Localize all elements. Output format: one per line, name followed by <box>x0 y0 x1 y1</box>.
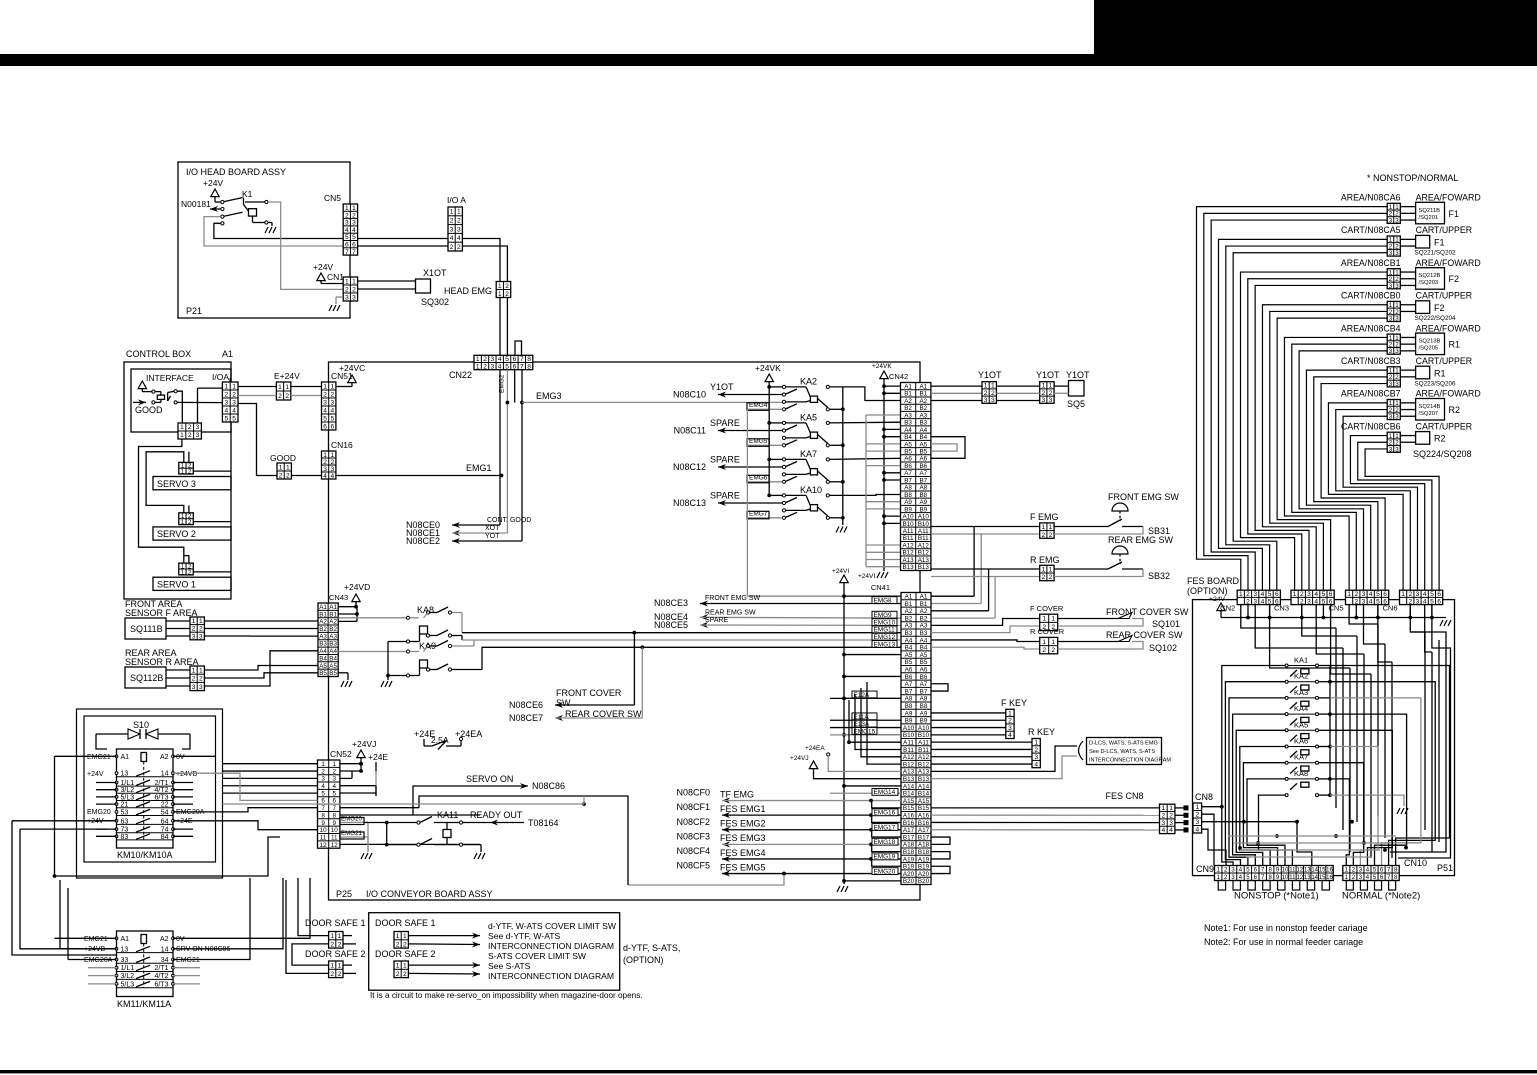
svg-text:A5: A5 <box>905 652 913 659</box>
svg-text:B7: B7 <box>905 688 913 695</box>
svg-text:B7: B7 <box>919 477 927 484</box>
fes ground bus <box>1221 617 1446 619</box>
svg-text:A1: A1 <box>920 593 928 600</box>
svg-text:SQ212B: SQ212B <box>1419 273 1441 279</box>
svg-text:2: 2 <box>278 393 282 400</box>
svg-text:A15: A15 <box>918 798 930 805</box>
svg-text:1: 1 <box>352 205 356 212</box>
svg-text:KA7: KA7 <box>800 449 817 459</box>
svg-text:A2: A2 <box>920 608 928 615</box>
svg-text:2: 2 <box>991 390 995 397</box>
svg-text:INTERCONNECTION DIAGRAM: INTERCONNECTION DIAGRAM <box>1089 758 1171 764</box>
svg-text:4: 4 <box>232 407 236 414</box>
svg-text:KA5: KA5 <box>800 413 817 423</box>
connector CN3 <box>1291 590 1334 604</box>
svg-text:4: 4 <box>498 356 502 363</box>
svg-text:11: 11 <box>331 834 338 841</box>
connector servo1 <box>179 563 194 575</box>
svg-text:+24E: +24E <box>176 818 193 825</box>
svg-text:B15: B15 <box>903 805 915 812</box>
svg-text:AREA/FOWARD: AREA/FOWARD <box>1416 389 1481 399</box>
svg-text:Y1OT: Y1OT <box>710 382 734 392</box>
svg-text:2: 2 <box>345 286 349 293</box>
svg-text:3: 3 <box>1008 725 1012 732</box>
svg-text:NORMAL (*Note2): NORMAL (*Note2) <box>1342 891 1420 902</box>
svg-text:SPARE: SPARE <box>710 491 740 501</box>
svg-text:A12: A12 <box>918 754 930 761</box>
CN9 teeth <box>1218 881 1225 891</box>
svg-text:+24VJ: +24VJ <box>352 739 376 749</box>
svg-text:F COVER: F COVER <box>1030 604 1064 613</box>
svg-text:B2: B2 <box>920 615 928 622</box>
svg-text:SW: SW <box>556 698 571 708</box>
cover-sw bus wires <box>461 613 463 633</box>
svg-text:14: 14 <box>1311 868 1318 874</box>
svg-text:A6: A6 <box>920 666 928 673</box>
svg-text:2: 2 <box>1354 591 1358 598</box>
svg-text:1: 1 <box>457 209 461 216</box>
svg-text:2: 2 <box>403 941 407 948</box>
svg-text:1: 1 <box>338 933 342 940</box>
svg-text:E+24V: E+24V <box>274 371 300 381</box>
svg-text:4: 4 <box>1369 598 1373 605</box>
note leader <box>1079 741 1084 760</box>
svg-text:EMG8: EMG8 <box>874 597 893 604</box>
svg-text:SQ211B: SQ211B <box>1419 208 1441 214</box>
svg-text:A20: A20 <box>903 871 915 878</box>
svg-text:3: 3 <box>1253 598 1257 605</box>
svg-text:3: 3 <box>1389 315 1393 322</box>
svg-text:2: 2 <box>1246 598 1250 605</box>
svg-text:B6: B6 <box>905 674 913 681</box>
svg-text:3: 3 <box>224 399 228 406</box>
N08CE7 rear cover sw <box>641 647 643 718</box>
svg-text:B5: B5 <box>904 448 912 455</box>
KM10 row stub wires <box>96 782 117 784</box>
svg-text:+24VI: +24VI <box>832 568 849 575</box>
svg-text:B19: B19 <box>903 864 915 871</box>
relay bottom row <box>1285 794 1288 797</box>
svg-text:+24VK: +24VK <box>755 363 781 373</box>
CN8 wires <box>1202 806 1222 808</box>
svg-text:A12: A12 <box>902 542 914 549</box>
svg-text:KA5: KA5 <box>1294 720 1308 729</box>
svg-text:I/O A: I/O A <box>447 195 466 205</box>
switch box SQ213B/SQ205 R1 <box>1416 333 1445 355</box>
svg-text:A13: A13 <box>918 769 930 776</box>
svg-text:2: 2 <box>188 432 192 439</box>
svg-text:SQ302: SQ302 <box>421 297 449 307</box>
svg-text:9: 9 <box>333 820 337 827</box>
svg-text:SENSOR F AREA: SENSOR F AREA <box>125 608 198 618</box>
svg-text:4: 4 <box>321 783 325 790</box>
svg-text:d-YTF, S-ATS,: d-YTF, S-ATS, <box>623 943 680 953</box>
svg-text:1: 1 <box>181 468 185 475</box>
F EMG wires <box>931 526 1040 528</box>
left nest wiring to CN9 <box>1222 666 1285 866</box>
svg-text:3: 3 <box>1362 598 1366 605</box>
svg-text:B17: B17 <box>903 834 915 841</box>
KA ground rail <box>387 642 389 681</box>
svg-text:7: 7 <box>520 356 524 363</box>
svg-text:KA10: KA10 <box>800 485 822 495</box>
KM11 stub wires <box>88 967 117 969</box>
svg-text:1: 1 <box>1042 639 1046 646</box>
svg-text:+24EA: +24EA <box>455 729 482 739</box>
svg-text:3: 3 <box>984 397 988 404</box>
svg-text:See D-LCS, WATS, S-ATS: See D-LCS, WATS, S-ATS <box>1089 749 1155 755</box>
svg-text:4: 4 <box>323 407 327 414</box>
svg-text:1: 1 <box>224 383 228 390</box>
F EMG verticals to CN41 <box>973 527 975 597</box>
svg-text:B9: B9 <box>905 718 913 725</box>
svg-text:A2: A2 <box>905 608 913 615</box>
svg-text:KA11: KA11 <box>437 810 458 820</box>
switch box F2 <box>1416 301 1430 314</box>
relay common vertical <box>1329 666 1331 796</box>
svg-text:Note1: For use in nonstop feed: Note1: For use in nonstop feeder cariage <box>1204 923 1368 933</box>
switch box F1 <box>1416 235 1430 248</box>
svg-text:B16: B16 <box>903 820 915 827</box>
svg-text:A11: A11 <box>918 739 929 746</box>
fes feed wires down from connectors <box>1241 605 1336 628</box>
svg-text:2: 2 <box>1408 598 1412 605</box>
top banner black block <box>1094 0 1537 54</box>
svg-text:1: 1 <box>1051 639 1055 646</box>
svg-text:1: 1 <box>323 452 327 459</box>
svg-text:1: 1 <box>330 933 334 940</box>
svg-text:SQ101: SQ101 <box>1152 619 1180 629</box>
svg-text:5: 5 <box>1376 598 1380 605</box>
svg-text:A9: A9 <box>920 710 928 717</box>
svg-text:B3: B3 <box>919 420 927 427</box>
svg-text:3: 3 <box>1389 250 1393 257</box>
svg-text:SQ102: SQ102 <box>1149 643 1177 653</box>
svg-text:1: 1 <box>1042 616 1046 623</box>
svg-text:B5: B5 <box>920 659 928 666</box>
svg-text:B4: B4 <box>319 655 327 662</box>
svg-text:A14: A14 <box>918 783 930 790</box>
svg-text:EMG1: EMG1 <box>466 463 492 473</box>
contactor KM11/KM11A <box>117 931 174 997</box>
svg-text:FRONT EMG SW: FRONT EMG SW <box>705 595 760 602</box>
svg-text:A11: A11 <box>903 528 914 535</box>
svg-text:1: 1 <box>1239 591 1243 598</box>
svg-text:4: 4 <box>498 363 502 370</box>
svg-text:CN42: CN42 <box>889 372 908 381</box>
svg-text:B5: B5 <box>329 670 337 677</box>
svg-text:EMG13: EMG13 <box>874 641 896 648</box>
svg-text:3: 3 <box>1395 381 1399 388</box>
svg-text:EMG3: EMG3 <box>536 391 562 401</box>
I/O CONVEYOR BOARD ASSY box P25 <box>329 362 921 900</box>
svg-text:CN43: CN43 <box>329 593 348 602</box>
fes inner verticals right <box>1335 628 1337 808</box>
svg-text:9: 9 <box>321 820 325 827</box>
svg-text:B12: B12 <box>902 550 914 557</box>
svg-text:FES BOARD: FES BOARD <box>1187 576 1240 586</box>
svg-text:B9: B9 <box>920 718 928 725</box>
svg-text:6: 6 <box>330 423 334 430</box>
svg-text:2: 2 <box>1041 390 1045 397</box>
svg-text:A2: A2 <box>319 619 327 626</box>
svg-text:2: 2 <box>1008 718 1012 725</box>
svg-text:EMG21: EMG21 <box>176 957 200 964</box>
svg-text:A1: A1 <box>319 604 327 611</box>
svg-text:A3: A3 <box>905 623 913 630</box>
svg-text:KM11/KM11A: KM11/KM11A <box>117 999 171 1009</box>
svg-text:B14: B14 <box>903 791 915 798</box>
interface power triangle <box>138 381 146 389</box>
svg-text:CART/N08CB3: CART/N08CB3 <box>1341 356 1401 366</box>
svg-text:1: 1 <box>279 464 283 471</box>
gray cross wires lower fes <box>1228 835 1396 837</box>
svg-text:3: 3 <box>1362 591 1366 598</box>
CN43 right taps <box>338 613 357 615</box>
CN52 ground <box>367 822 369 852</box>
svg-text:1: 1 <box>180 424 184 431</box>
svg-text:4: 4 <box>1423 591 1427 598</box>
wire I/O A to CN22 pin5 <box>462 246 507 356</box>
svg-text:N08CE6: N08CE6 <box>509 700 543 710</box>
interface relay circuit <box>152 390 155 393</box>
svg-text:A5: A5 <box>919 441 927 448</box>
svg-text:B16: B16 <box>918 820 930 827</box>
svg-text:A2: A2 <box>919 398 927 405</box>
svg-text:A14: A14 <box>903 783 915 790</box>
svg-text:(OPTION): (OPTION) <box>1187 586 1228 596</box>
svg-text:1: 1 <box>498 291 502 298</box>
svg-text:6: 6 <box>1437 591 1441 598</box>
svg-text:A1: A1 <box>222 349 233 359</box>
svg-text:B5: B5 <box>919 448 927 455</box>
svg-text:1: 1 <box>1049 566 1053 573</box>
svg-text:3: 3 <box>1041 397 1045 404</box>
svg-text:1: 1 <box>345 278 349 285</box>
svg-text:3: 3 <box>345 220 349 227</box>
svg-text:A7: A7 <box>905 681 913 688</box>
svg-text:A4: A4 <box>319 648 327 655</box>
right nest wiring to CN10 <box>1330 666 1450 866</box>
svg-text:S10: S10 <box>133 720 149 730</box>
svg-text:5: 5 <box>1430 591 1434 598</box>
svg-text:2: 2 <box>1300 591 1304 598</box>
svg-text:DOOR SAFE 1: DOOR SAFE 1 <box>305 918 366 928</box>
svg-text:REAR EMG SW: REAR EMG SW <box>705 609 756 616</box>
svg-text:A3: A3 <box>904 412 912 419</box>
svg-text:B13: B13 <box>903 776 915 783</box>
svg-text:2: 2 <box>396 941 400 948</box>
svg-text:10: 10 <box>331 827 339 834</box>
svg-text:2: 2 <box>330 941 334 948</box>
wire I/OA3 down to GOOD <box>238 404 277 476</box>
svg-text:1: 1 <box>476 363 480 370</box>
svg-text:AREA/N08CA6: AREA/N08CA6 <box>1341 193 1401 203</box>
svg-text:4: 4 <box>1314 598 1318 605</box>
svg-text:3: 3 <box>333 776 337 783</box>
limit sw SQ101 <box>1058 618 1118 620</box>
svg-text:CN2: CN2 <box>1220 604 1235 613</box>
svg-text:3: 3 <box>1389 446 1393 453</box>
svg-text:3: 3 <box>330 466 334 473</box>
svg-text:1: 1 <box>1347 591 1351 598</box>
svg-text:A8: A8 <box>919 485 927 492</box>
svg-text:DOOR SAFE 2: DOOR SAFE 2 <box>375 949 436 959</box>
svg-text:A15: A15 <box>903 798 915 805</box>
svg-text:A2: A2 <box>329 619 337 626</box>
svg-text:4: 4 <box>330 473 334 480</box>
I/O HEAD BOARD ASSY box P21 <box>178 162 350 318</box>
svg-text:5: 5 <box>1268 591 1272 598</box>
svg-text:3: 3 <box>491 356 495 363</box>
svg-text:SQ213B: SQ213B <box>1419 339 1441 345</box>
svg-text:+24VB: +24VB <box>84 946 106 953</box>
svg-text:B10: B10 <box>918 732 930 739</box>
limit sw SQ102 <box>1058 641 1118 643</box>
svg-text:2: 2 <box>1195 812 1199 819</box>
svg-text:I/O CONVEYOR BOARD ASSY: I/O CONVEYOR BOARD ASSY <box>366 889 493 899</box>
svg-text:SPARE: SPARE <box>705 617 729 624</box>
svg-text:4: 4 <box>330 407 334 414</box>
svg-text:12: 12 <box>1296 868 1303 874</box>
svg-text:1: 1 <box>333 761 337 768</box>
svg-text:EMG16: EMG16 <box>874 810 896 817</box>
svg-text:EMG12: EMG12 <box>874 634 896 641</box>
svg-text:I/OA: I/OA <box>212 372 229 382</box>
svg-text:0V: 0V <box>176 936 185 943</box>
R EMG verticals to CN41 <box>988 569 990 611</box>
svg-text:1: 1 <box>1049 524 1053 531</box>
connector sensor R <box>190 666 204 691</box>
svg-text:2: 2 <box>483 356 487 363</box>
svg-text:+24V: +24V <box>313 262 333 272</box>
svg-text:1: 1 <box>403 962 407 969</box>
wires KM10 right to CN52 area <box>173 773 276 800</box>
svg-text:6: 6 <box>1383 591 1387 598</box>
svg-text:4: 4 <box>1261 591 1265 598</box>
svg-text:A3: A3 <box>319 633 327 640</box>
svg-text:I/O HEAD BOARD ASSY: I/O HEAD BOARD ASSY <box>186 167 286 177</box>
svg-text:A2: A2 <box>904 398 912 405</box>
svg-text:FES CN8: FES CN8 <box>1105 791 1143 801</box>
contactor KM10/KM10A <box>117 749 174 848</box>
svg-text:EMG15: EMG15 <box>854 728 876 735</box>
svg-text:S-ATS COVER LIMIT SW: S-ATS COVER LIMIT SW <box>488 951 587 961</box>
KM10 coil and dashed linkage <box>141 753 147 762</box>
svg-text:INTERFACE: INTERFACE <box>146 373 194 383</box>
svg-text:16: 16 <box>1326 868 1333 874</box>
svg-text:SERVO ON: SERVO ON <box>466 774 513 784</box>
svg-text:B2: B2 <box>319 626 327 633</box>
ground CN1 <box>335 297 337 304</box>
connector servo2 <box>179 513 194 525</box>
connector CN5 <box>1346 590 1389 604</box>
svg-text:3: 3 <box>196 424 200 431</box>
svg-text:B2: B2 <box>904 405 912 412</box>
svg-text:CART/N08CB0: CART/N08CB0 <box>1341 291 1401 301</box>
svg-text:READY OUT: READY OUT <box>470 810 523 820</box>
svg-text:2: 2 <box>457 244 461 251</box>
svg-text:4: 4 <box>1162 827 1166 834</box>
svg-text:4: 4 <box>224 407 228 414</box>
svg-text:2: 2 <box>333 768 337 775</box>
svg-text:11: 11 <box>1289 868 1296 874</box>
svg-text:6: 6 <box>513 363 517 370</box>
svg-text:4: 4 <box>1195 827 1199 834</box>
svg-text:3: 3 <box>321 776 325 783</box>
svg-text:B19: B19 <box>918 864 930 871</box>
svg-text:3: 3 <box>323 466 327 473</box>
svg-text:SB32: SB32 <box>1148 571 1170 581</box>
svg-text:KA3: KA3 <box>1294 688 1308 697</box>
svg-text:1: 1 <box>476 356 480 363</box>
CN42 loop stubs right <box>931 437 965 459</box>
top rule bar <box>0 54 1537 66</box>
connector CN22 <box>474 355 533 369</box>
svg-text:CONTROL BOX: CONTROL BOX <box>126 349 191 359</box>
svg-text:A13: A13 <box>902 557 914 564</box>
svg-text:B2: B2 <box>919 405 927 412</box>
svg-text:A9: A9 <box>904 499 912 506</box>
svg-text:2: 2 <box>1354 598 1358 605</box>
svg-text:FES EMG5: FES EMG5 <box>720 862 766 872</box>
svg-text:1: 1 <box>403 933 407 940</box>
svg-text:B3: B3 <box>904 420 912 427</box>
svg-text:B4: B4 <box>905 645 913 652</box>
sensor SQ111B box <box>125 618 166 639</box>
svg-text:A8: A8 <box>905 696 913 703</box>
svg-text:2: 2 <box>199 626 203 633</box>
svg-text:4: 4 <box>1314 591 1318 598</box>
svg-text:B6: B6 <box>904 463 912 470</box>
svg-text:8: 8 <box>527 356 531 363</box>
svg-text:CART/N08CB6: CART/N08CB6 <box>1341 421 1401 431</box>
svg-text:1: 1 <box>1034 739 1038 746</box>
svg-text:7: 7 <box>520 363 524 370</box>
svg-text:3: 3 <box>1395 217 1399 224</box>
svg-text:B13: B13 <box>918 776 930 783</box>
svg-text:2: 2 <box>321 768 325 775</box>
svg-text:5: 5 <box>505 363 509 370</box>
svg-text:CART/UPPER: CART/UPPER <box>1416 291 1473 301</box>
svg-text:SERVO 2: SERVO 2 <box>157 529 196 539</box>
sensor wires to CN43 <box>204 620 318 622</box>
svg-text:4: 4 <box>1169 827 1173 834</box>
svg-text:5: 5 <box>224 415 228 422</box>
svg-text:3: 3 <box>199 633 203 640</box>
wires 123 connector to servo cascade <box>139 439 184 563</box>
svg-text:2: 2 <box>1034 747 1038 754</box>
svg-text:CART/UPPER: CART/UPPER <box>1416 225 1473 235</box>
svg-text:1: 1 <box>192 667 196 674</box>
svg-text:R COVER: R COVER <box>1030 627 1065 636</box>
relay bank common ground vertical <box>842 387 844 525</box>
svg-text:3: 3 <box>1395 250 1399 257</box>
svg-text:X1OT: X1OT <box>423 268 447 278</box>
svg-text:A1: A1 <box>329 604 337 611</box>
svg-text:2: 2 <box>1169 813 1173 820</box>
svg-text:1: 1 <box>181 519 185 526</box>
svg-text:B7: B7 <box>904 477 912 484</box>
svg-text:CN22: CN22 <box>449 370 472 380</box>
svg-text:AREA/FOWARD: AREA/FOWARD <box>1416 193 1481 203</box>
svg-text:B10: B10 <box>903 732 915 739</box>
svg-text:6: 6 <box>1275 591 1279 598</box>
svg-text:N08CF1: N08CF1 <box>676 802 710 812</box>
svg-text:SENSOR R AREA: SENSOR R AREA <box>125 657 199 667</box>
svg-text:EMG21: EMG21 <box>84 936 108 943</box>
svg-text:HEAD EMG: HEAD EMG <box>444 286 492 296</box>
